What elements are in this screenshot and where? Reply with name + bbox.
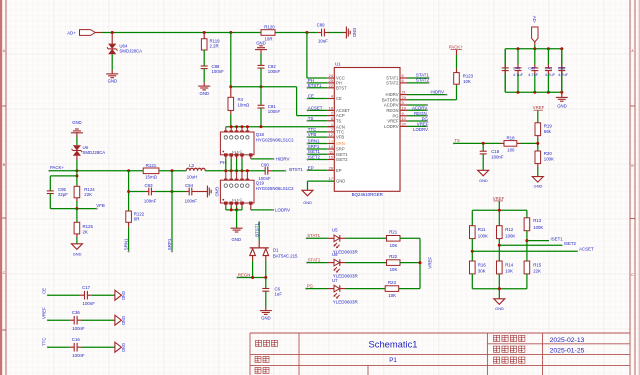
- svg-text:100nF: 100nF: [83, 301, 96, 306]
- junction divider top: [498, 209, 501, 212]
- junction divider bottom: [498, 287, 501, 290]
- capacitor C46: [517, 49, 519, 65]
- wire C91 to drain rail: [260, 108, 262, 127]
- svg-text:2025-02-13: 2025-02-13: [550, 337, 585, 344]
- junction at U64: [111, 31, 114, 34]
- svg-text:PACK+: PACK+: [449, 44, 463, 49]
- U1 pin 21 HIDRV (right): [400, 94, 407, 96]
- capacitor C18: [482, 143, 484, 151]
- wire SRN column: [128, 171, 130, 211]
- wire U1 HIDRV stub: [407, 94, 447, 96]
- svg-text:19: 19: [402, 105, 406, 110]
- svg-text:TS: TS: [454, 138, 460, 143]
- wire R121 to L3: [159, 170, 186, 172]
- svg-text:HIDRV: HIDRV: [431, 89, 445, 94]
- junction VFB node: [75, 207, 78, 210]
- capacitor C45: [534, 49, 536, 65]
- svg-text:GND: GND: [121, 316, 126, 325]
- svg-text:GND: GND: [534, 184, 543, 189]
- capacitor bank left: [504, 49, 506, 65]
- wire R11 to R16 with ACSET tap: [471, 239, 473, 261]
- wire R19 to node: [537, 136, 539, 139]
- ground below Q19: [231, 228, 243, 232]
- svg-text:R20: R20: [544, 151, 553, 156]
- U1 pin 11 ISET1 (left): [327, 153, 334, 155]
- capacitor C89: [317, 32, 321, 34]
- title label create date: [494, 346, 525, 352]
- svg-text:ISET1: ISET1: [308, 149, 321, 154]
- wire LED to R21: [340, 237, 346, 239]
- junction at VCC branch: [305, 31, 308, 34]
- svg-text:22: 22: [329, 83, 333, 88]
- svg-text:R11: R11: [478, 227, 486, 232]
- U1 pin 18 ACSET (left): [327, 109, 334, 111]
- drain rail above Q18: [226, 126, 327, 128]
- U1 pin 17 GND (left): [327, 180, 334, 182]
- svg-text:SRN1: SRN1: [123, 238, 128, 250]
- ground below C6: [260, 311, 272, 315]
- resistor R125: [76, 209, 78, 223]
- led U6: [334, 259, 340, 266]
- sheet border right line inner: [629, 0, 631, 375]
- sheet border right line outer: [634, 0, 636, 375]
- tvs diode U64: [111, 33, 113, 44]
- ground right of C89: [346, 27, 350, 39]
- ground right of C17: [115, 290, 122, 300]
- svg-text:TTC: TTC: [42, 337, 47, 346]
- svg-text:GND: GND: [352, 28, 357, 38]
- svg-text:GND: GND: [336, 179, 345, 184]
- svg-text:Q18: Q18: [256, 132, 265, 137]
- diode D1 BAT54C.215: [250, 247, 269, 249]
- svg-text:R13: R13: [533, 218, 542, 223]
- wire AD+ rail: [95, 32, 101, 34]
- wire R13 to R15 with ISET1 tap: [526, 231, 528, 261]
- wire R23 to VREF bus: [399, 288, 420, 290]
- svg-text:15mΩ: 15mΩ: [145, 175, 157, 180]
- divider bottom rail: [471, 274, 473, 289]
- sheet right edge strip: [639, 0, 640, 375]
- svg-text:VFB: VFB: [96, 203, 105, 208]
- svg-text:R22: R22: [389, 254, 398, 259]
- wire PACK+ rail: [48, 170, 50, 172]
- wire TTC row: [48, 346, 70, 348]
- resistor R11: [471, 210, 473, 225]
- svg-text:1uF: 1uF: [275, 292, 283, 297]
- svg-text:13: 13: [329, 139, 333, 144]
- svg-text:ISET2: ISET2: [564, 241, 577, 246]
- wire gnd to C92: [260, 50, 262, 53]
- svg-text:22pF: 22pF: [58, 192, 68, 197]
- svg-text:LODRV: LODRV: [275, 207, 290, 212]
- svg-text:100nF: 100nF: [268, 69, 281, 74]
- capacitor C94: [188, 188, 190, 196]
- wire U1 VREF stub: [407, 120, 427, 122]
- resistor R23: [385, 286, 399, 292]
- wire C18 to ground: [482, 154, 484, 170]
- wire L3 to C90 (PH rail): [205, 170, 265, 172]
- svg-text:10K: 10K: [390, 243, 398, 248]
- svg-text:HIDRV: HIDRV: [276, 156, 290, 161]
- cap bank left edge: [504, 49, 506, 92]
- svg-text:R23: R23: [388, 280, 397, 285]
- svg-text:C42: C42: [558, 66, 565, 71]
- svg-text:10K: 10K: [390, 267, 398, 272]
- svg-text:C89: C89: [317, 22, 326, 27]
- svg-text:U5: U5: [332, 227, 338, 232]
- svg-text:56k: 56k: [544, 129, 552, 134]
- title block outline: [250, 333, 630, 375]
- title label yuye (page): [255, 356, 269, 362]
- wire CE row: [48, 294, 80, 296]
- resistor R20: [535, 151, 541, 164]
- capacitor C92: [258, 64, 265, 66]
- divider top rail: [472, 209, 527, 211]
- svg-text:BTST: BTST: [336, 85, 347, 90]
- title label huizhi (drawn): [255, 367, 269, 373]
- svg-text:STAT2: STAT2: [386, 81, 399, 86]
- wire ACSET row: [472, 250, 578, 252]
- wire C92 to node: [260, 68, 262, 87]
- resistor R21: [387, 236, 401, 242]
- capacitor C42: [561, 49, 563, 65]
- wire VREF row: [48, 319, 70, 321]
- svg-text:BTST1: BTST1: [289, 167, 303, 172]
- svg-text:C94: C94: [185, 183, 194, 188]
- svg-text:TS: TS: [336, 118, 342, 123]
- junction R4 top: [229, 85, 232, 88]
- U1 pin 25 PH (left): [327, 82, 334, 84]
- svg-text:R15: R15: [533, 262, 542, 267]
- U1 pin 15 ISET2 (left): [327, 159, 334, 161]
- svg-text:GND: GND: [214, 187, 219, 197]
- svg-text:U7: U7: [332, 278, 338, 283]
- svg-text:100nF: 100nF: [268, 109, 281, 114]
- svg-text:4.7uF: 4.7uF: [513, 72, 524, 77]
- svg-text:6: 6: [402, 78, 404, 83]
- ground right of C16: [115, 342, 122, 352]
- title label material code: [494, 357, 525, 363]
- wire C93 to SRP column: [151, 191, 155, 193]
- transistor Q18: [220, 127, 254, 155]
- wire STAT1 to LED: [307, 237, 327, 239]
- svg-text:SRN: SRN: [336, 141, 345, 146]
- svg-text:22K: 22K: [533, 269, 541, 274]
- resistor R18: [501, 142, 505, 144]
- wire PG to LED: [306, 288, 327, 290]
- svg-text:BTST1: BTST1: [308, 83, 322, 88]
- svg-text:GND: GND: [232, 237, 242, 242]
- capacitor C17: [84, 291, 86, 300]
- capacitor C90: [264, 167, 266, 175]
- wire U1 ACDRV stub: [407, 104, 427, 106]
- sheet border left strip: [0, 0, 2, 375]
- svg-text:ISET2: ISET2: [336, 157, 348, 162]
- wire R120 to C89: [275, 32, 317, 34]
- resistor R13: [526, 210, 528, 218]
- svg-text:12: 12: [329, 132, 333, 137]
- junction C18: [482, 142, 485, 145]
- svg-text:GND: GND: [121, 291, 126, 300]
- U1 pin 19 REGN (right): [400, 109, 407, 111]
- wire Q18 gate HIDRV: [250, 156, 252, 159]
- cap bank bottom rail: [505, 91, 562, 93]
- cap bank right edge: [561, 49, 563, 92]
- resistor R12: [498, 210, 500, 225]
- resistor R121: [143, 168, 159, 174]
- svg-text:SRN1: SRN1: [308, 139, 320, 144]
- svg-text:22K: 22K: [84, 192, 92, 197]
- junction cap bank x518: [517, 47, 520, 50]
- svg-text:10uF: 10uF: [318, 38, 328, 43]
- wire VREF to rail: [498, 201, 500, 210]
- U1 pin 4 CE (left): [327, 98, 334, 100]
- svg-text:CE: CE: [42, 288, 47, 294]
- svg-text:15: 15: [329, 155, 333, 160]
- U1 pin 2 ACP (left): [327, 115, 334, 117]
- svg-text:GND: GND: [261, 316, 271, 321]
- svg-text:GND: GND: [557, 104, 567, 109]
- svg-text:C36: C36: [72, 310, 81, 315]
- svg-text:D1: D1: [273, 248, 279, 253]
- svg-text:VREF: VREF: [387, 119, 399, 124]
- wire SRP column: [171, 171, 173, 252]
- wire ACP branch: [296, 87, 298, 116]
- junction at R4 branch: [229, 31, 232, 34]
- wire rail to R4 node: [230, 33, 232, 87]
- svg-text:GND: GND: [303, 200, 312, 205]
- op-amp U1 BQ24610RGER body: [334, 68, 400, 192]
- svg-text:C17: C17: [82, 285, 91, 290]
- svg-text:C6: C6: [275, 286, 281, 291]
- wire R20 to ground: [537, 164, 539, 167]
- wire R4 node to ACP corner: [231, 86, 297, 88]
- svg-text:0R: 0R: [134, 217, 140, 222]
- wire C36 to ground: [77, 319, 82, 321]
- wire C16 to ground: [77, 346, 82, 348]
- svg-text:HYG025N06LS1C2: HYG025N06LS1C2: [256, 186, 294, 191]
- U1 pin 10 VREF (right): [400, 120, 407, 122]
- junctions PH rail at Q pins: [224, 169, 227, 172]
- ground below C88: [198, 86, 210, 90]
- wire VREF bus vertical (LED pullups): [419, 238, 421, 288]
- U1 pin 20 LODRV (right): [400, 125, 407, 127]
- U1 pin 12 VFB (left): [327, 136, 334, 138]
- resistor R16: [470, 261, 476, 274]
- U1 pin 9 PG (right): [400, 115, 407, 117]
- svg-text:REGN: REGN: [386, 108, 398, 113]
- wires Q19 source pins to gnd rail: [225, 204, 227, 206]
- led U5: [334, 235, 340, 242]
- svg-text:C41: C41: [545, 66, 552, 71]
- svg-text:100nF: 100nF: [185, 199, 198, 204]
- left border divider y330: [2, 329, 6, 331]
- net label VFB: [96, 208, 98, 210]
- svg-text:ISET1: ISET1: [551, 236, 564, 241]
- resistor R4: [230, 87, 232, 98]
- wire U6 node down to R124: [76, 171, 78, 187]
- capacitor C6: [265, 278, 267, 289]
- wire AD- to cap bank: [534, 42, 536, 45]
- svg-text:100nF: 100nF: [72, 353, 85, 358]
- svg-text:R4: R4: [238, 97, 244, 102]
- wire R4 to drain rail: [230, 110, 232, 114]
- svg-text:SRP1: SRP1: [167, 238, 172, 250]
- wire R122 to SRN1 end: [128, 222, 130, 227]
- svg-text:VREF: VREF: [493, 196, 505, 201]
- svg-text:Q19: Q19: [256, 181, 265, 186]
- svg-text:R120: R120: [264, 25, 275, 30]
- U1 pin 1 ACN (left): [327, 126, 334, 128]
- svg-text:100nF: 100nF: [491, 154, 504, 159]
- wire BATDRV to R123: [407, 99, 457, 101]
- svg-text:R21: R21: [389, 230, 398, 235]
- wire R21 to VREF bus: [400, 237, 420, 239]
- svg-text:YLED0603R: YLED0603R: [333, 300, 359, 305]
- title label yuanlitu (schematic): [256, 340, 278, 346]
- resistor R124: [74, 186, 80, 198]
- resistor R123: [456, 50, 458, 55]
- U1 pin 13 SRN (left): [327, 143, 334, 145]
- junction cap bank x548.4: [547, 47, 550, 50]
- ground below divider: [494, 299, 505, 305]
- svg-text:GND: GND: [200, 91, 210, 96]
- junction C91 at drain rail: [260, 125, 263, 128]
- svg-text:100nF: 100nF: [212, 69, 225, 74]
- svg-text:2.2R: 2.2R: [210, 44, 219, 49]
- wire C94 row: [172, 191, 186, 193]
- junction at R119: [203, 31, 206, 34]
- svg-text:PACK+: PACK+: [50, 165, 64, 170]
- svg-text:ISET1: ISET1: [336, 152, 348, 157]
- svg-text:STAT2: STAT2: [416, 78, 430, 83]
- svg-text:100K: 100K: [478, 233, 488, 238]
- svg-text:100nF: 100nF: [144, 199, 157, 204]
- svg-text:4.7uF: 4.7uF: [545, 72, 556, 77]
- wire U1 STAT1 stub: [407, 77, 429, 79]
- led U7: [334, 285, 340, 292]
- svg-text:ACDRV: ACDRV: [384, 103, 399, 108]
- svg-text:VREF: VREF: [533, 105, 545, 110]
- svg-text:CE: CE: [336, 96, 342, 101]
- svg-text:10uH: 10uH: [187, 175, 197, 180]
- svg-text:GND: GND: [479, 178, 488, 183]
- wire LED to R23: [340, 288, 346, 290]
- svg-text:CE: CE: [308, 94, 314, 99]
- svg-text:R12: R12: [505, 227, 514, 232]
- svg-text:Schematic1: Schematic1: [369, 338, 418, 349]
- svg-text:GND: GND: [108, 79, 118, 84]
- wire U1 LODRV stub: [407, 125, 427, 127]
- wire U1 PG stub: [407, 115, 427, 117]
- svg-text:VREF: VREF: [42, 307, 47, 319]
- svg-text:R123: R123: [463, 74, 474, 79]
- junction U6 column: [75, 169, 78, 172]
- svg-text:U6: U6: [332, 252, 338, 257]
- svg-text:100K: 100K: [505, 233, 515, 238]
- svg-text:HYG025N06LS1C2: HYG025N06LS1C2: [256, 137, 294, 142]
- U1 pin 7 TTC (left): [327, 131, 334, 133]
- svg-text:PH: PH: [220, 160, 226, 165]
- wire REGN row: [237, 277, 265, 279]
- wire C93 row left: [129, 191, 146, 193]
- capacitor C95: [47, 190, 54, 192]
- junction cap bank x534.8: [533, 47, 536, 50]
- wire to divider ground: [498, 289, 500, 299]
- svg-text:26: 26: [329, 165, 333, 170]
- svg-text:BQ24610RGER: BQ24610RGER: [352, 192, 383, 197]
- capacitor C41: [547, 49, 549, 65]
- svg-text:R16: R16: [478, 262, 487, 267]
- svg-text:GND: GND: [256, 40, 266, 45]
- svg-text:AD-: AD-: [532, 16, 537, 24]
- title label update date: [494, 335, 525, 341]
- right border divider y218.5: [630, 218, 635, 220]
- ground below R20: [532, 177, 543, 183]
- svg-text:4.7uF: 4.7uF: [558, 72, 569, 77]
- wire C95 to VFB row: [49, 194, 51, 209]
- wire C90 to BTST1: [268, 170, 272, 172]
- svg-text:17: 17: [329, 176, 333, 181]
- svg-text:2025-01-25: 2025-01-25: [550, 347, 585, 354]
- right border divider y106: [630, 105, 635, 107]
- left border divider y106: [2, 105, 6, 107]
- junction C94 left: [171, 190, 174, 193]
- svg-text:VREF: VREF: [427, 257, 432, 269]
- resistor R122: [126, 211, 132, 222]
- ground below cap bank: [556, 97, 568, 101]
- inductor L3: [186, 168, 205, 171]
- wire Q19 gate LODRV: [250, 204, 252, 210]
- capacitor C93: [148, 188, 150, 196]
- svg-text:LODRV: LODRV: [413, 127, 428, 132]
- svg-text:ACSET: ACSET: [308, 105, 323, 110]
- wire R125 to ground: [76, 234, 78, 237]
- ground below C18: [478, 170, 489, 176]
- wires D1 anodes to REGN row: [252, 256, 254, 261]
- ground right of C94: [207, 186, 211, 198]
- wire STAT2 to LED: [307, 262, 327, 264]
- wire C17 to ground: [87, 294, 92, 296]
- wire C94 to ground: [192, 191, 207, 193]
- U1 pin 14 SRP (left): [327, 148, 334, 150]
- svg-text:EP: EP: [336, 168, 342, 173]
- junction R19/R20: [536, 142, 539, 145]
- wire TS row: [454, 142, 501, 144]
- svg-text:R19: R19: [544, 124, 553, 129]
- ground right of C36: [115, 315, 122, 325]
- wire U1 GND pin to ground: [308, 180, 335, 182]
- ground below U1: [302, 190, 313, 196]
- svg-text:GND: GND: [121, 343, 126, 352]
- svg-text:STAT1: STAT1: [307, 233, 320, 238]
- wire ISET1 row: [527, 240, 549, 242]
- resistor R19: [537, 111, 539, 123]
- svg-text:R14: R14: [505, 262, 514, 267]
- svg-text:U1: U1: [335, 62, 341, 67]
- svg-text:C16: C16: [72, 337, 81, 342]
- svg-text:100K: 100K: [544, 156, 554, 161]
- wires Q18 source pins to PH rail: [225, 156, 227, 159]
- wire R119 to C88: [203, 50, 205, 66]
- wire C6 to ground: [265, 291, 267, 307]
- cap bank top rail: [505, 48, 562, 50]
- junction C93 left: [127, 190, 130, 193]
- svg-text:10mΩ: 10mΩ: [238, 103, 250, 108]
- U1 pin 22 BTST (left): [327, 87, 334, 89]
- U1 pin 23 BATDRV (right): [400, 99, 407, 101]
- svg-text:PG: PG: [307, 283, 314, 288]
